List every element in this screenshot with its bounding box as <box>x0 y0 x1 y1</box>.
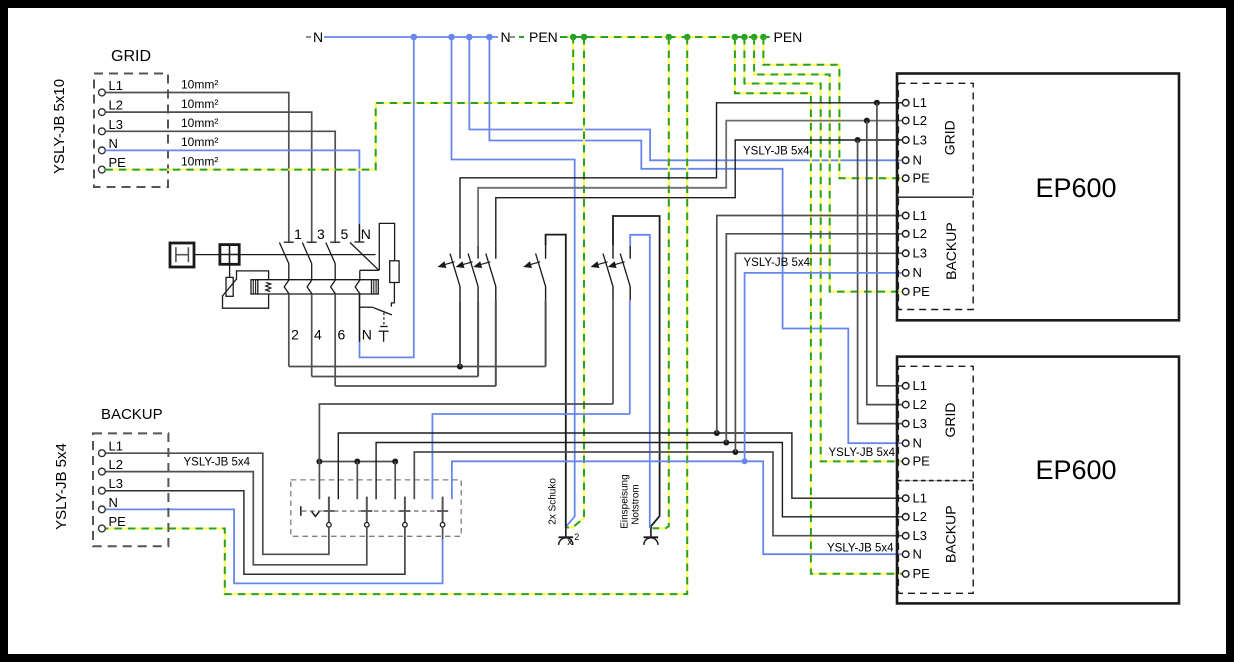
svg-text:BACKUP: BACKUP <box>943 505 959 563</box>
svg-text:PE: PE <box>913 454 931 469</box>
svg-text:YSLY-JB 5x4: YSLY-JB 5x4 <box>827 543 894 555</box>
svg-text:Einspeisung: Einspeisung <box>619 474 630 528</box>
svg-text:10mm²: 10mm² <box>181 77 218 91</box>
svg-text:N: N <box>501 29 511 45</box>
svg-text:YSLY-JB 5x4: YSLY-JB 5x4 <box>53 443 70 530</box>
svg-text:L2: L2 <box>109 457 123 472</box>
svg-text:N: N <box>109 495 118 510</box>
svg-text:PE: PE <box>913 284 931 299</box>
svg-text:YSLY-JB 5x4: YSLY-JB 5x4 <box>743 146 810 158</box>
svg-text:YSLY-JB 5x4: YSLY-JB 5x4 <box>829 447 896 459</box>
svg-text:BACKUP: BACKUP <box>101 406 163 423</box>
svg-text:PE: PE <box>913 171 931 186</box>
svg-text:10mm²: 10mm² <box>181 116 218 130</box>
svg-text:L1: L1 <box>109 78 123 93</box>
svg-text:L3: L3 <box>109 117 123 132</box>
svg-text:3: 3 <box>317 226 325 242</box>
svg-text:L1: L1 <box>913 378 927 393</box>
svg-text:YSLY-JB 5x4: YSLY-JB 5x4 <box>744 257 811 269</box>
svg-text:L1: L1 <box>913 208 927 223</box>
svg-text:PE: PE <box>109 155 127 170</box>
svg-text:L2: L2 <box>913 397 927 412</box>
svg-text:GRID: GRID <box>942 403 958 438</box>
svg-text:EP600: EP600 <box>1035 173 1116 203</box>
svg-text:EP600: EP600 <box>1035 455 1116 485</box>
svg-text:x: x <box>567 536 573 548</box>
svg-text:GRID: GRID <box>111 48 151 65</box>
svg-text:YSLY-JB 5x4: YSLY-JB 5x4 <box>184 457 251 469</box>
svg-text:2: 2 <box>291 326 299 342</box>
svg-text:N: N <box>913 547 922 562</box>
svg-text:N: N <box>362 326 372 342</box>
svg-text:10mm²: 10mm² <box>181 97 218 111</box>
svg-text:5: 5 <box>341 226 349 242</box>
svg-text:L2: L2 <box>109 98 123 113</box>
svg-text:2x Schuko: 2x Schuko <box>547 478 558 525</box>
svg-text:10mm²: 10mm² <box>181 154 218 168</box>
svg-text:PEN: PEN <box>529 29 558 45</box>
svg-text:L3: L3 <box>913 528 927 543</box>
svg-text:GRID: GRID <box>942 120 958 155</box>
svg-text:10mm²: 10mm² <box>181 135 218 149</box>
svg-text:BACKUP: BACKUP <box>943 222 959 280</box>
svg-text:N: N <box>361 226 371 242</box>
svg-text:L1: L1 <box>913 491 927 506</box>
svg-text:N: N <box>913 153 922 168</box>
svg-text:1: 1 <box>294 226 302 242</box>
svg-text:PE: PE <box>913 566 931 581</box>
svg-text:YSLY-JB 5x10: YSLY-JB 5x10 <box>51 79 68 174</box>
svg-text:N: N <box>313 29 323 45</box>
svg-text:N: N <box>109 136 118 151</box>
svg-text:L3: L3 <box>913 246 927 261</box>
svg-text:L2: L2 <box>913 509 927 524</box>
svg-text:L3: L3 <box>913 416 927 431</box>
svg-text:L3: L3 <box>913 132 927 147</box>
svg-text:L2: L2 <box>913 226 927 241</box>
svg-text:4: 4 <box>314 326 322 342</box>
svg-text:L1: L1 <box>913 95 927 110</box>
svg-text:Notstrom: Notstrom <box>630 484 641 525</box>
svg-text:2: 2 <box>574 532 579 542</box>
svg-text:N: N <box>913 436 922 451</box>
svg-text:L2: L2 <box>913 113 927 128</box>
svg-text:N: N <box>913 265 922 280</box>
svg-text:L3: L3 <box>109 476 123 491</box>
svg-text:PE: PE <box>109 514 127 529</box>
svg-text:L1: L1 <box>109 439 123 454</box>
svg-text:6: 6 <box>338 326 346 342</box>
svg-text:PEN: PEN <box>774 29 803 45</box>
